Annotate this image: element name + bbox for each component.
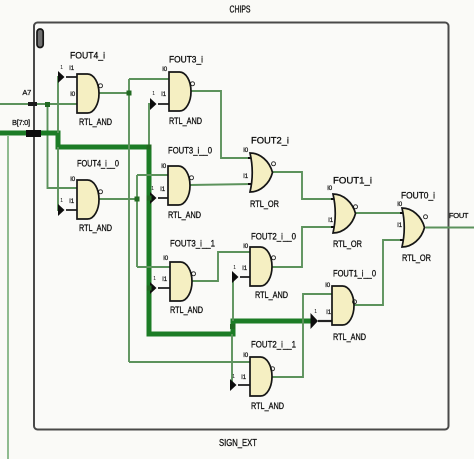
junction bus tap FOUT3_i__0 (147, 196, 152, 201)
junction FOUT4_i__0 out (135, 197, 140, 202)
wire net A7 horizontal (0, 103, 77, 105)
svg-text:RTL_AND: RTL_AND (255, 290, 288, 301)
svg-text:I0: I0 (70, 176, 76, 183)
pin stub FOUT1_i I0 (331, 198, 336, 200)
module boundary box (34, 23, 449, 430)
svg-text:RTL_AND: RTL_AND (168, 210, 201, 221)
net FOUT2_i output to FOUT1_i I0 (273, 172, 337, 199)
arrowhead FOUT3_i__0 I1 tap (150, 192, 157, 204)
arrowhead FOUT2_i__0 I1 (232, 271, 239, 283)
svg-text:1: 1 (60, 198, 63, 204)
svg-text:FOUT3_i__1: FOUT3_i__1 (170, 239, 215, 250)
svg-text:O: O (189, 175, 194, 182)
svg-text:I0: I0 (70, 91, 76, 98)
junction bus corner 1 (147, 145, 152, 150)
svg-text:1: 1 (233, 265, 236, 271)
and-gate FOUT3_i__0 (151, 146, 212, 222)
bus tap to FOUT2_i__0 I1 (233, 277, 234, 321)
net FOUT2_i__0 output to FOUT1_i I1 (272, 227, 336, 267)
junction A7 net (45, 102, 50, 107)
svg-text:O: O (98, 83, 103, 90)
bus B[7:0] drop outside box (7, 135, 9, 459)
svg-text:RTL_AND: RTL_AND (251, 401, 284, 412)
arrowhead FOUT3_i I1 (150, 98, 157, 110)
svg-text:I0: I0 (327, 185, 333, 192)
and-gate FOUT2_i__1 (232, 340, 296, 413)
svg-text:O: O (98, 189, 103, 196)
svg-text:I0: I0 (243, 147, 249, 154)
wire to FOUT2_i__1 I0 (129, 361, 250, 363)
svg-text:SIGN_EXT: SIGN_EXT (219, 437, 257, 449)
svg-text:FOUT2_i: FOUT2_i (251, 136, 289, 147)
svg-text:B[7:0]: B[7:0] (12, 118, 30, 127)
svg-text:A7: A7 (22, 88, 31, 97)
svg-text:I0: I0 (243, 352, 249, 359)
svg-text:I1: I1 (397, 222, 403, 229)
svg-text:O: O (191, 271, 196, 278)
svg-text:1: 1 (60, 65, 63, 71)
svg-text:I1: I1 (242, 265, 248, 272)
svg-text:1: 1 (151, 186, 154, 192)
wire to FOUT3_i__1 I0 (137, 266, 170, 268)
svg-text:I1: I1 (326, 309, 332, 316)
svg-text:I0: I0 (325, 282, 331, 289)
svg-text:I1: I1 (241, 374, 247, 381)
and-gate FOUT4_i (60, 51, 112, 129)
arrowhead FOUT1_i__0 I1 (bus) (311, 313, 319, 329)
svg-text:RTL_AND: RTL_AND (79, 117, 112, 128)
pin stub FOUT0_i I0 (400, 212, 405, 214)
svg-text:1: 1 (153, 276, 156, 282)
bus B[7:0] main thick run (0, 133, 311, 334)
or-gate FOUT2_i (243, 136, 289, 211)
svg-text:FOUT1_i__0: FOUT1_i__0 (333, 269, 376, 280)
bus tap to FOUT2_i__1 I1 (232, 334, 233, 385)
svg-text:FOUT4_i__0: FOUT4_i__0 (77, 159, 119, 170)
svg-text:FOUT3_i: FOUT3_i (169, 55, 203, 66)
svg-text:I1: I1 (243, 173, 249, 180)
svg-text:I0: I0 (161, 163, 167, 170)
svg-text:RTL_AND: RTL_AND (79, 223, 112, 234)
net FOUT4_i__0 output (99, 198, 137, 200)
bus tap to FOUT4_i__0 I1 (58, 147, 60, 210)
svg-text:I1: I1 (69, 198, 75, 205)
arrowhead FOUT3_i__1 I1 tap (150, 282, 157, 294)
svg-text:O: O (190, 81, 195, 88)
svg-text:FOUT: FOUT (449, 211, 469, 220)
svg-text:FOUT3_i__0: FOUT3_i__0 (168, 146, 212, 157)
svg-text:I1: I1 (328, 217, 334, 224)
wire to FOUT3_i__0 I0 (137, 174, 168, 176)
svg-text:FOUT4_i: FOUT4_i (70, 51, 105, 62)
net FOUT3_i__1 output to FOUT2_i__0 I0 (192, 252, 250, 281)
wire net A7 branch to FOUT4_i__0 (48, 104, 78, 188)
svg-text:RTL_AND: RTL_AND (333, 332, 366, 343)
svg-text:O: O (271, 255, 276, 262)
bus tap to FOUT3_i I1 (149, 104, 150, 147)
or-gate FOUT1_i (327, 176, 372, 251)
pin stub FOUT2_i I1 (248, 183, 253, 185)
and-gate FOUT4_i__0 (60, 159, 119, 235)
svg-text:1: 1 (314, 309, 317, 315)
svg-text:RTL_OR: RTL_OR (250, 199, 279, 210)
junction FOUT4_i out (127, 91, 132, 96)
port marker A7 (28, 102, 37, 106)
svg-text:O: O (423, 214, 428, 221)
net FOUT0_i output FOUT (426, 227, 474, 229)
pin stub FOUT0_i I1 (400, 239, 405, 241)
junction bus tap FOUT3_i__1 (147, 286, 152, 291)
wire vertical FOUT4_i__0 out net (136, 175, 138, 267)
svg-text:FOUT1_i: FOUT1_i (333, 176, 372, 187)
svg-text:O: O (271, 161, 276, 168)
bus tap to FOUT4_i I1 (58, 77, 60, 133)
and-gate FOUT3_i__1 (153, 239, 215, 317)
svg-text:O: O (352, 299, 357, 306)
pin stub FOUT1_i I1 (331, 226, 336, 228)
svg-text:O: O (353, 204, 358, 211)
and-gate FOUT2_i__0 (233, 232, 296, 302)
svg-text:I1: I1 (160, 186, 166, 193)
svg-text:RTL_OR: RTL_OR (402, 253, 431, 264)
wire vertical FOUT4_i out net (128, 79, 130, 362)
svg-text:CHIPS: CHIPS (230, 5, 251, 16)
svg-text:RTL_OR: RTL_OR (333, 239, 362, 250)
junction bus corner 2 (230, 324, 235, 329)
or-gate FOUT0_i (397, 191, 435, 265)
svg-text:FOUT2_i__1: FOUT2_i__1 (251, 340, 296, 351)
svg-text:RTL_AND: RTL_AND (169, 116, 202, 127)
svg-text:O: O (270, 366, 275, 373)
and-gate FOUT1_i__0 (314, 269, 376, 344)
sheet marker D (37, 29, 43, 48)
pin stub FOUT2_i I0 (248, 157, 253, 159)
wire to FOUT3_i I0 (129, 78, 169, 80)
svg-text:FOUT0_i: FOUT0_i (401, 191, 435, 202)
arrowhead FOUT4_i__0 I1 (58, 204, 65, 216)
net FOUT2_i__1 output to FOUT1_i__0 I0 (272, 294, 333, 377)
arrowhead FOUT2_i__1 I1 (230, 379, 237, 391)
net FOUT1_i__0 output to FOUT0_i I1 (354, 240, 405, 305)
svg-text:I0: I0 (162, 66, 168, 73)
svg-text:1: 1 (232, 374, 235, 380)
arrowhead FOUT4_i I1 (58, 71, 65, 83)
port marker B bus (26, 130, 41, 137)
svg-text:I1: I1 (162, 276, 168, 283)
and-gate FOUT3_i (152, 55, 203, 128)
svg-text:I1: I1 (161, 91, 167, 98)
svg-text:I1: I1 (69, 65, 75, 72)
svg-text:1: 1 (152, 91, 155, 97)
svg-text:I0: I0 (163, 255, 169, 262)
net FOUT4_i output to column vertical (99, 92, 129, 94)
svg-text:I0: I0 (243, 243, 249, 250)
svg-text:FOUT2_i__0: FOUT2_i__0 (251, 232, 296, 243)
net FOUT1_i output to FOUT0_i I0 (355, 212, 402, 214)
net FOUT3_i__0 output to FOUT2_i I1 (190, 184, 252, 185)
svg-text:RTL_AND: RTL_AND (170, 305, 203, 316)
net FOUT3_i output to FOUT2_i I0 (191, 91, 253, 158)
svg-text:I0: I0 (397, 201, 403, 208)
